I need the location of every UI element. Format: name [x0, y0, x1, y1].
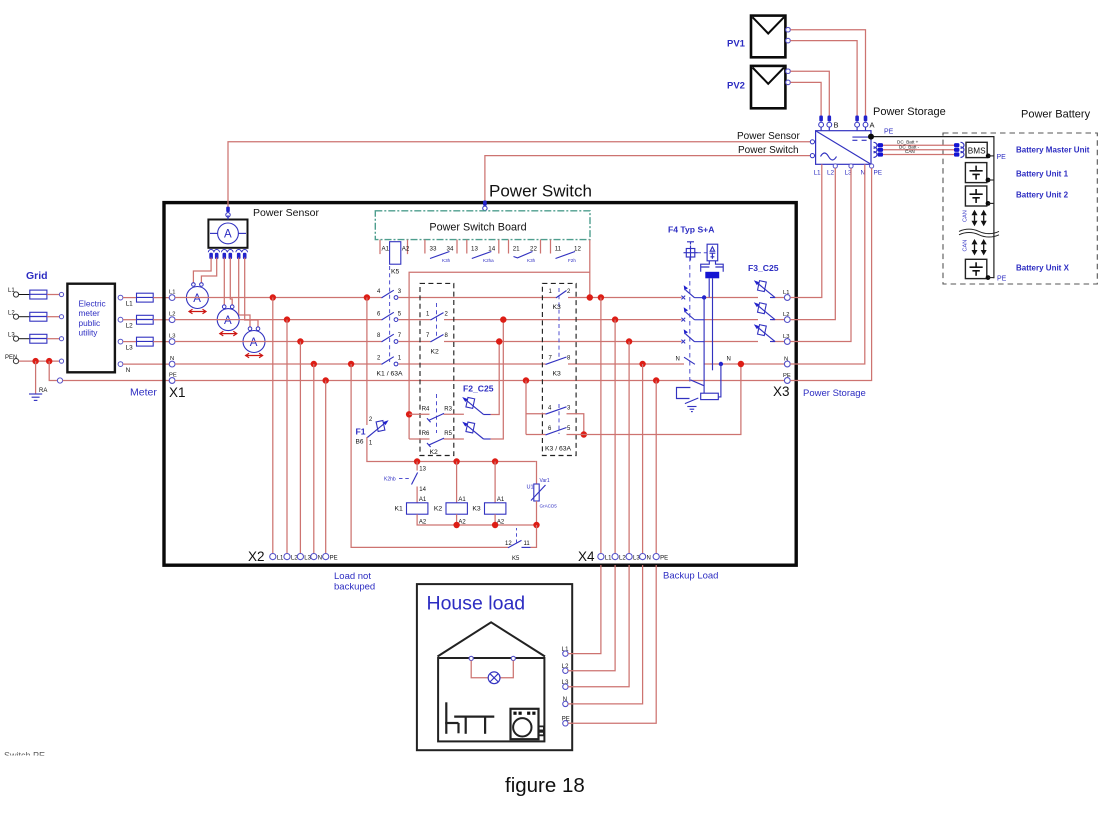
junction PEN-PE — [46, 358, 52, 364]
fuse house L3 — [137, 337, 154, 346]
terminal 34 — [447, 240, 458, 254]
svg-text:K5: K5 — [391, 269, 400, 276]
node PV2 plus — [786, 69, 791, 74]
node inverter switch in — [810, 154, 814, 158]
junction N blue — [719, 362, 723, 366]
wire X2 L1 drop — [272, 298, 274, 554]
node X2 N — [311, 554, 322, 562]
svg-text:PE: PE — [997, 154, 1007, 161]
svg-text:PE: PE — [330, 556, 338, 562]
svg-text:K5: K5 — [512, 556, 520, 562]
node X4 L1 — [598, 554, 612, 562]
svg-text:K2: K2 — [431, 349, 440, 356]
wire DC_Batt minus — [883, 149, 954, 151]
svg-text:RA: RA — [39, 388, 47, 394]
svg-text:Load not: Load not — [334, 571, 371, 582]
wire inverter L2 to X3 — [790, 168, 835, 320]
wire house L1 — [568, 565, 601, 654]
node house N — [563, 697, 568, 707]
wire power switch line to inverter — [485, 156, 811, 203]
node inverter L3 out — [849, 164, 853, 168]
node X1 L3 — [169, 333, 175, 344]
junction PE at inverter — [868, 134, 874, 140]
svg-text:N: N — [318, 556, 322, 562]
svg-text:CAN: CAN — [963, 210, 969, 222]
enclosure house load box — [417, 584, 572, 750]
svg-text:X2: X2 — [248, 549, 265, 564]
contact K2 (1-2) on L2 — [426, 311, 449, 320]
node L3 grid terminal — [8, 333, 19, 342]
contact K3/63A (4-3) — [546, 406, 572, 415]
breaker F2 lower — [462, 422, 490, 439]
junction BU1 PE — [986, 178, 991, 183]
wire bond to N row — [567, 364, 741, 435]
wire X2 N drop — [313, 364, 315, 553]
battery unit 2 box — [965, 186, 986, 206]
svg-text:K2: K2 — [434, 506, 443, 513]
junction board wire to R4 row — [406, 411, 412, 417]
SEC_GRID — [5, 270, 186, 400]
contact K5 (12-11) — [505, 528, 531, 562]
chevron BMS 2 — [961, 147, 965, 153]
wire meter to fuse L1 — [123, 297, 137, 299]
contact K3h aux — [430, 252, 451, 264]
svg-text:Power Sensor: Power Sensor — [253, 207, 319, 219]
svg-text:R5: R5 — [444, 431, 452, 437]
junction N row bond — [738, 361, 744, 367]
wire to RA ground — [35, 361, 37, 394]
svg-text:U1: U1 — [527, 485, 534, 491]
svg-text:CAN: CAN — [963, 240, 969, 252]
junction X4 L2 — [612, 316, 618, 322]
svg-text:L2: L2 — [126, 323, 134, 330]
svg-text:utility: utility — [79, 328, 99, 338]
node PV1 plus — [786, 27, 791, 32]
wire — [47, 316, 60, 318]
svg-text:14: 14 — [419, 487, 426, 493]
wire — [153, 297, 169, 299]
furniture chair — [445, 702, 458, 734]
wire coil bottom bus — [417, 514, 536, 525]
wire into contact 6 — [526, 434, 546, 436]
SEC_PV — [727, 16, 946, 381]
svg-text:L1: L1 — [277, 556, 284, 562]
contact F2h aux — [556, 252, 577, 264]
wire X4 L2 drop — [614, 320, 616, 554]
wire inverter PE to X3 — [790, 168, 871, 380]
ammeter symbol in sensor — [210, 215, 246, 244]
wire sensor to A2 right — [230, 258, 232, 305]
terminal 11 — [551, 240, 562, 254]
svg-text:PV1: PV1 — [727, 39, 746, 50]
wire K2hb to K1 coil — [416, 487, 418, 503]
node X4 L2 — [612, 554, 626, 562]
wire varistor to bottom bus — [536, 501, 538, 525]
svg-text:11: 11 — [524, 541, 531, 547]
svg-text:A2: A2 — [402, 246, 410, 253]
svg-text:21: 21 — [513, 246, 520, 253]
node X3 L2 — [783, 312, 790, 323]
fuse house L1 — [137, 293, 154, 302]
RCD pole L1 — [681, 285, 704, 299]
wire — [19, 294, 30, 296]
svg-text:Backup Load: Backup Load — [663, 571, 718, 582]
label electric meter — [79, 298, 106, 337]
svg-text:Battery Unit 2: Battery Unit 2 — [1016, 191, 1069, 200]
CAN arrows group 1 — [972, 210, 987, 226]
svg-text:public: public — [79, 318, 101, 328]
svg-text:33: 33 — [430, 246, 437, 253]
breaker F3 L2 — [754, 302, 775, 319]
wire PEN — [19, 360, 60, 362]
ammeter A on L2 — [217, 305, 239, 336]
wire — [47, 294, 60, 296]
board Power Switch Board — [375, 211, 590, 240]
SEC_K3 — [523, 283, 744, 455]
wire X4 PE drop — [655, 381, 657, 554]
wire sensor to A3 left — [239, 258, 250, 327]
mech link K2 upper — [436, 303, 438, 338]
node meter-out L1 — [118, 295, 133, 307]
wire trip coil lines — [709, 278, 712, 370]
SEC_ROWS — [175, 298, 785, 381]
svg-text:Battery Unit 1: Battery Unit 1 — [1016, 169, 1069, 178]
node inverter L2 out — [833, 164, 837, 168]
chevron inverter DC1 — [874, 142, 878, 148]
svg-text:backuped: backuped — [334, 582, 375, 593]
breaker F2 upper — [462, 397, 490, 415]
svg-text:BMS: BMS — [968, 146, 986, 155]
pin power switch on box top — [483, 201, 487, 211]
label faint clipped text bottom-left — [0, 751, 75, 768]
SEC_BOARD — [375, 156, 810, 439]
svg-text:A1: A1 — [382, 246, 390, 253]
wire sensor to A3 right — [245, 258, 258, 327]
node PV2 minus — [786, 80, 791, 85]
wire sensor to A1 right — [201, 258, 216, 283]
wire inverter N to X3 — [790, 164, 865, 364]
svg-text:Meter: Meter — [130, 387, 157, 399]
ammeter A on L3 — [243, 327, 265, 358]
terminal 14 — [488, 240, 499, 254]
svg-text:House load: House load — [427, 593, 526, 615]
SEC_HOUSE — [417, 565, 656, 750]
wire inverter L3 to X3 — [790, 168, 851, 341]
SEC_SENSOR — [186, 142, 810, 358]
BMS box — [966, 142, 987, 157]
fuse house L2 — [137, 315, 154, 324]
contact K3 (1-2) on L1 — [549, 289, 572, 298]
terminal 33 — [425, 240, 437, 254]
svg-text:K3: K3 — [472, 506, 481, 513]
svg-text:13: 13 — [419, 467, 426, 473]
break wavy lines — [959, 229, 999, 237]
SEC_MAINBOX — [164, 182, 796, 566]
svg-text:A: A — [224, 315, 232, 327]
pin power sensor on box top — [226, 207, 230, 220]
wire X4 L1 drop — [600, 298, 602, 554]
contact K3 (7-8) on N — [546, 356, 572, 365]
SEC_F4 — [668, 225, 866, 412]
wire PE branch — [49, 361, 57, 380]
house body — [438, 658, 544, 741]
relay coil K2 — [434, 497, 468, 526]
svg-text:A: A — [193, 293, 201, 305]
contact K1 pole L3 (8-7) — [377, 333, 402, 343]
label Load not backuped — [334, 571, 375, 593]
svg-text:Battery Unit X: Battery Unit X — [1016, 264, 1070, 273]
CAN arrows group 2 — [972, 239, 987, 255]
varistor U1 Var1 — [527, 478, 558, 509]
svg-text:L2: L2 — [619, 556, 626, 562]
svg-text:CAN: CAN — [905, 149, 915, 154]
svg-text:Power Switch Board: Power Switch Board — [429, 222, 526, 234]
contact K2ha aux — [472, 252, 494, 264]
pin inverter A1 — [855, 116, 860, 131]
wire X2 L2 drop — [286, 320, 288, 554]
node X3 PE — [783, 373, 791, 384]
junction BU2 PE — [986, 201, 991, 206]
svg-text:F3_C25: F3_C25 — [748, 263, 779, 273]
svg-text:11: 11 — [555, 246, 562, 253]
solar panel PV1 — [727, 16, 785, 58]
junction bond output — [581, 431, 587, 437]
wire sensor to A1 left — [193, 258, 211, 283]
svg-text:Power Battery: Power Battery — [1021, 109, 1091, 121]
node meter-in L3 — [59, 337, 63, 341]
svg-text:K3: K3 — [553, 304, 562, 311]
node inverter PE out — [870, 164, 874, 168]
svg-text:PV2: PV2 — [727, 81, 745, 92]
node PE meter terminal — [57, 378, 62, 383]
svg-text:PE: PE — [884, 129, 894, 136]
F4 test T-bar — [687, 242, 694, 245]
junction X4 L3 — [626, 338, 632, 344]
junction F2b on L2 — [500, 316, 506, 322]
contact K2 (7-8) on L3 — [426, 333, 449, 342]
svg-text:X4: X4 — [578, 549, 595, 564]
node X3 L3 — [783, 334, 790, 345]
svg-text:Grid: Grid — [26, 270, 48, 282]
wire row L1 — [175, 297, 785, 299]
lamp — [488, 672, 500, 684]
wire meter to fuse L2 — [123, 319, 137, 321]
electric meter box — [67, 284, 115, 373]
node X2 L2 — [284, 554, 298, 562]
wire varistor branch — [535, 462, 538, 484]
svg-text:F4 Typ S+A: F4 Typ S+A — [668, 225, 714, 235]
wire F1 to control bus — [367, 437, 536, 462]
svg-text:Power Storage: Power Storage — [803, 388, 866, 399]
wire — [153, 341, 169, 343]
node X2 L1 — [270, 554, 284, 562]
wire sensor to A2 left — [223, 258, 225, 305]
node meter-in L1 — [59, 292, 63, 296]
wire X4 L3 drop — [628, 342, 630, 554]
fuse grid L2 — [30, 312, 47, 321]
node X2 PE — [323, 554, 338, 562]
RCD pole L3 — [681, 329, 704, 343]
junction F2a on L3 — [496, 338, 502, 344]
terminal 12 — [574, 240, 590, 254]
pin DC battery plus left — [878, 143, 883, 147]
node X3 L1 — [783, 290, 790, 301]
svg-text:K1 / 63A: K1 / 63A — [377, 371, 404, 378]
enclosure Power Switch box — [164, 203, 796, 566]
sensor bottom pins — [208, 250, 247, 260]
svg-text:A1: A1 — [458, 497, 466, 503]
wire K3 coil A2 — [494, 514, 496, 525]
contact K3h aux2 — [514, 252, 536, 264]
node L2 grid terminal — [8, 311, 19, 320]
wire tee to sense resistors — [409, 272, 590, 439]
pin CAN left — [878, 152, 883, 156]
node X4 PE — [653, 554, 668, 562]
wire PV1 plus to A — [790, 30, 865, 116]
F4 surge block — [705, 272, 719, 279]
wire meter to fuse L3 — [123, 341, 137, 343]
svg-text:R6: R6 — [422, 431, 430, 437]
junction L1 to board net — [587, 294, 593, 300]
F4 mech dashed link — [689, 257, 691, 385]
junction PEN-RA — [32, 358, 38, 364]
wire row PE — [175, 380, 785, 382]
wire K1 coil branch upper — [416, 462, 418, 471]
relay coil K3 — [472, 497, 506, 526]
svg-text:A1: A1 — [419, 497, 427, 503]
svg-text:F1: F1 — [356, 427, 366, 437]
svg-text:13: 13 — [471, 246, 478, 253]
junction varistor bottom — [533, 522, 539, 528]
svg-text:A1: A1 — [497, 497, 505, 503]
node X3 N — [784, 356, 790, 367]
wire F2 lower to L2 row — [491, 320, 504, 439]
node lamp wire right — [511, 656, 515, 660]
junction BMS PE — [986, 154, 991, 159]
contact R6-R5 — [422, 431, 453, 447]
svg-text:R3: R3 — [444, 407, 452, 413]
svg-text:K2: K2 — [430, 449, 439, 456]
wire lamp right — [500, 661, 513, 678]
wire bus down to K5 contact — [531, 525, 537, 547]
contact K3/63A (6-5) — [546, 426, 572, 435]
contactor K3 dashed box — [542, 283, 576, 455]
svg-text:L1: L1 — [814, 170, 822, 177]
mech link K3 lower — [558, 404, 560, 434]
chevron inverter DC3 — [874, 152, 878, 158]
junction X2 N — [311, 361, 317, 367]
svg-text:K3: K3 — [553, 371, 562, 378]
wire house N — [568, 565, 643, 704]
enclosure Power Battery dashed — [943, 133, 1097, 284]
node X1 N — [169, 356, 175, 367]
furniture table — [454, 717, 494, 734]
pin inverter B2 — [827, 116, 832, 131]
wire X2 L3 drop — [299, 342, 301, 554]
junction bus K1 branch — [414, 458, 420, 464]
svg-text:K2hb: K2hb — [384, 477, 396, 483]
svg-text:N: N — [647, 556, 651, 562]
node meter-in PEN — [59, 359, 63, 363]
node X4 L3 — [626, 554, 640, 562]
svg-text:R4: R4 — [422, 407, 430, 413]
chevron inverter DC2 — [874, 147, 878, 153]
node house L3 — [562, 680, 569, 690]
svg-text:K3 / 63A: K3 / 63A — [545, 446, 572, 453]
wire — [19, 338, 30, 340]
wire K2 coil A2 — [456, 514, 458, 525]
wire F2 upper to L3 row — [491, 342, 500, 415]
junction A2 K3 — [492, 522, 498, 528]
mech link K5-K1 — [389, 266, 391, 362]
svg-text:F2h: F2h — [568, 258, 576, 263]
wire N row to K5 contact — [351, 364, 508, 547]
contact R4-R3 — [422, 407, 453, 423]
contact K1 pole L1 (4-3) — [377, 289, 402, 299]
junction X2 PE — [323, 377, 329, 383]
breaker F3 L1 — [754, 280, 775, 297]
junction X2 L3 — [297, 338, 303, 344]
ground RA — [29, 388, 47, 400]
wire K2 coil branch — [456, 462, 458, 503]
wire X4 N drop — [642, 364, 644, 553]
ammeter A on L1 — [186, 283, 208, 314]
wire — [19, 316, 30, 318]
SEC_CTRL — [348, 294, 557, 562]
junction L1 to F1 — [364, 294, 370, 300]
svg-text:Electric: Electric — [79, 298, 106, 308]
wire PE to X1 — [63, 380, 170, 382]
node house L1 — [562, 647, 569, 657]
junction BUX PE — [986, 275, 991, 280]
svg-text:L1: L1 — [605, 556, 612, 562]
terminal 13 — [467, 240, 479, 254]
breaker F3 L3 — [754, 324, 775, 341]
SEC_K2 — [406, 283, 507, 455]
wire row N — [175, 363, 785, 365]
breaker F1 B6 — [367, 417, 388, 447]
wire row L2 — [175, 319, 785, 321]
wire house L2 — [568, 565, 615, 671]
svg-text:B: B — [834, 121, 839, 130]
svg-text:PE: PE — [660, 556, 668, 562]
wire meter N to X1 — [123, 363, 169, 365]
wire NPE-bond left leg — [525, 381, 527, 435]
wire contact3 to contact5 — [567, 414, 584, 435]
wire F4 aux left leg — [703, 298, 705, 387]
node X2 L3 — [297, 554, 311, 562]
wire BU2 PE stub — [988, 202, 994, 204]
pin inverter B1 — [819, 116, 824, 131]
F4 trip unit box A/T — [707, 244, 718, 261]
svg-text:Power Switch: Power Switch — [489, 182, 592, 201]
wire PV2 minus to B — [790, 82, 821, 115]
wire DC_Batt plus — [883, 144, 954, 146]
F4 test button — [684, 246, 698, 261]
node meter-out N — [118, 362, 131, 374]
svg-text:12: 12 — [574, 246, 581, 253]
wire BU1 PE stub — [988, 179, 994, 181]
wire F4 aux right leg — [718, 364, 721, 397]
RCD pole L2 — [681, 307, 704, 321]
svg-text:N: N — [126, 367, 131, 374]
solar panel PV2 — [727, 66, 785, 108]
mech link K2 lower — [436, 394, 438, 433]
svg-text:L3: L3 — [126, 345, 134, 352]
junction L1 blue — [702, 295, 706, 299]
wire L1 to F1 — [366, 298, 368, 426]
SEC_XTERM — [248, 294, 718, 592]
